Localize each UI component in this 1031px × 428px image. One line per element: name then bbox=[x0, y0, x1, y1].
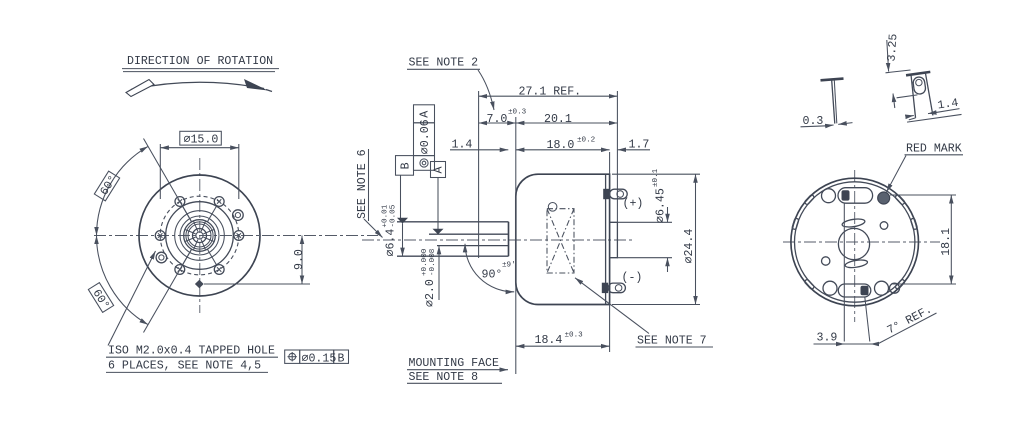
dia 6.45 dim bbox=[617, 221, 672, 223]
dia 24.4 dim bbox=[612, 173, 700, 175]
dia 6.4 dim bbox=[402, 224, 404, 257]
rear hub bbox=[610, 222, 618, 257]
svg-text:±0.2: ±0.2 bbox=[577, 137, 596, 145]
diamond leader bbox=[204, 283, 310, 285]
svg-text:SEE NOTE 8: SEE NOTE 8 bbox=[409, 371, 479, 384]
spokes bbox=[182, 206, 217, 266]
through hole lower-left bbox=[156, 252, 167, 263]
hole bottom-right bbox=[875, 281, 889, 295]
centerline horizontal bbox=[783, 241, 940, 243]
tapped hole 60deg bbox=[214, 197, 224, 207]
label area dashed rect bbox=[547, 209, 574, 273]
18.1 dim bbox=[890, 194, 956, 196]
motor body outline bbox=[516, 174, 610, 304]
shaft tip extension line bbox=[478, 91, 480, 258]
dia 2.0 dim bbox=[438, 246, 440, 300]
svg-text:±0.3: ±0.3 bbox=[508, 109, 527, 117]
datum B leader + triangle bbox=[400, 175, 402, 218]
60 deg label upper bbox=[94, 171, 121, 202]
dia 15.0 dim bbox=[159, 144, 161, 199]
centerline bbox=[362, 239, 633, 241]
60 deg label lower bbox=[87, 283, 114, 314]
svg-text:18.4: 18.4 bbox=[535, 334, 563, 347]
svg-text:6 PLACES, SEE NOTE 4,5: 6 PLACES, SEE NOTE 4,5 bbox=[108, 360, 261, 373]
bearing boss bottom bbox=[397, 255, 509, 257]
svg-text:(-): (-) bbox=[622, 272, 643, 285]
90 deg dim arc bbox=[465, 244, 514, 292]
label pin circle bbox=[548, 203, 557, 212]
shaft knurl star bbox=[185, 221, 213, 249]
tapped hole 180deg bbox=[155, 231, 165, 241]
motor body outer circle bbox=[139, 175, 260, 296]
rotation arrow open head left bbox=[126, 80, 154, 97]
right extension line (hub face) bbox=[616, 91, 618, 222]
bearing boss top bbox=[397, 221, 509, 223]
svg-text:±0.3: ±0.3 bbox=[565, 332, 584, 340]
svg-text:A: A bbox=[419, 111, 432, 118]
svg-text:⌀0.06: ⌀0.06 bbox=[419, 119, 432, 154]
svg-text:SEE NOTE 7: SEE NOTE 7 bbox=[637, 334, 707, 347]
svg-text:⌀6.45: ⌀6.45 bbox=[655, 188, 668, 223]
boss circle bbox=[175, 211, 225, 261]
bearing circle bbox=[184, 220, 216, 252]
27.1 REF dim bbox=[479, 95, 618, 97]
svg-text:B: B bbox=[399, 162, 412, 169]
svg-text:MOUNTING FACE: MOUNTING FACE bbox=[409, 357, 499, 370]
7.0 dim bbox=[479, 122, 516, 124]
svg-text:ISO M2.0x0.4 TAPPED HOLE: ISO M2.0x0.4 TAPPED HOLE bbox=[108, 345, 275, 358]
top slot stadium bbox=[838, 188, 873, 204]
svg-text:B: B bbox=[338, 353, 345, 366]
top slot brush bbox=[842, 190, 850, 200]
radial line 240 bbox=[144, 249, 192, 332]
18.4 dim bbox=[516, 345, 610, 347]
datum A leader + triangle bbox=[437, 178, 439, 230]
svg-text:18.1: 18.1 bbox=[940, 228, 953, 256]
tapped hole 120deg bbox=[175, 197, 185, 207]
centerline horizontal bbox=[94, 235, 378, 237]
svg-text:⌀0.15: ⌀0.15 bbox=[302, 353, 337, 366]
svg-text:9.0: 9.0 bbox=[293, 249, 306, 270]
brush line tilted (7 deg) bbox=[865, 297, 870, 342]
18.0 dim bbox=[516, 149, 610, 151]
hole left small bbox=[822, 257, 830, 265]
60 deg arc lower bbox=[97, 236, 149, 325]
svg-text:⌀15.0: ⌀15.0 bbox=[184, 133, 219, 146]
radial line 120 bbox=[144, 139, 192, 222]
cap outer circle bbox=[791, 178, 919, 306]
ring circle bbox=[180, 216, 219, 255]
end cap seam bbox=[605, 175, 607, 305]
rotation arrow arc bbox=[131, 82, 264, 89]
bottom slot brush bbox=[861, 286, 869, 296]
svg-text:-0.008: -0.008 bbox=[429, 248, 437, 276]
3.25 dim bbox=[886, 70, 911, 73]
shaft top bbox=[429, 233, 509, 235]
svg-text:3.25: 3.25 bbox=[886, 33, 901, 62]
terminal detail side bbox=[801, 79, 853, 128]
shaft bottom bbox=[437, 245, 509, 247]
cap edge extension down bbox=[609, 305, 611, 352]
7 deg leader bbox=[878, 313, 937, 344]
boss end face bbox=[508, 222, 510, 256]
cap inner rim circle bbox=[795, 182, 915, 302]
lower crescent slot bbox=[845, 259, 868, 269]
svg-text:±9': ±9' bbox=[502, 262, 516, 270]
note leader bbox=[108, 251, 156, 346]
tapped hole 0deg bbox=[234, 231, 244, 241]
centerline vertical bbox=[854, 170, 856, 322]
bolt circle dashed bbox=[160, 196, 239, 275]
flange circle bbox=[166, 202, 234, 270]
through hole upper-right bbox=[233, 210, 244, 221]
svg-text:-0.05: -0.05 bbox=[390, 204, 398, 227]
svg-text:3.9: 3.9 bbox=[817, 331, 838, 344]
index diamond bbox=[195, 280, 204, 289]
hole bottom-left bbox=[823, 281, 837, 295]
9.0 dim bbox=[301, 236, 303, 285]
svg-text:A: A bbox=[433, 167, 446, 174]
bearing inner circle bbox=[188, 224, 211, 247]
svg-text:RED MARK: RED MARK bbox=[906, 142, 962, 155]
red mark hole bbox=[878, 192, 890, 204]
datum A box bbox=[431, 162, 446, 178]
mounting face extension line bbox=[515, 117, 517, 374]
svg-text:⌀24.4: ⌀24.4 bbox=[683, 229, 696, 264]
terminal detail front bbox=[894, 68, 962, 123]
rim notches bbox=[792, 194, 918, 290]
svg-text:⌀2.0: ⌀2.0 bbox=[424, 279, 437, 307]
shaft center circle bbox=[196, 232, 203, 239]
svg-text:SEE NOTE 6: SEE NOTE 6 bbox=[356, 149, 369, 219]
60 deg arc upper bbox=[97, 146, 149, 235]
rotation arrow solid head right bbox=[244, 79, 268, 91]
center hole bbox=[838, 228, 869, 259]
upper crescent slot bbox=[842, 218, 866, 229]
svg-text:27.1 REF.: 27.1 REF. bbox=[519, 86, 582, 99]
svg-text:DIRECTION OF ROTATION: DIRECTION OF ROTATION bbox=[127, 55, 273, 68]
hole top-left bbox=[822, 189, 836, 203]
shaft circle bbox=[193, 229, 207, 243]
datum B frame bbox=[396, 105, 435, 175]
svg-text:7.0: 7.0 bbox=[487, 113, 508, 126]
terminal (+) bbox=[603, 189, 627, 199]
svg-text:⌀6.4: ⌀6.4 bbox=[385, 229, 398, 257]
hole bottom-right2 bbox=[890, 283, 900, 293]
brush line vertical bbox=[843, 204, 845, 342]
centerline vertical bbox=[199, 158, 201, 313]
svg-text:+0.01: +0.01 bbox=[382, 204, 390, 227]
see note 6 bbox=[356, 149, 369, 221]
svg-text:±0.1: ±0.1 bbox=[652, 168, 660, 187]
svg-text:(+): (+) bbox=[623, 198, 644, 211]
tapped hole 300deg bbox=[214, 265, 224, 275]
20.1 dim bbox=[516, 122, 618, 124]
cap edge extension up bbox=[609, 152, 611, 174]
bottom slot stadium bbox=[838, 284, 871, 297]
svg-text:+0.000: +0.000 bbox=[421, 248, 429, 276]
hole right small bbox=[880, 222, 888, 230]
terminal (-) bbox=[602, 283, 626, 293]
svg-text:20.1: 20.1 bbox=[544, 113, 572, 126]
svg-text:SEE NOTE 2: SEE NOTE 2 bbox=[409, 57, 479, 70]
svg-text:90°: 90° bbox=[482, 269, 503, 282]
svg-text:18.0: 18.0 bbox=[547, 139, 575, 152]
tapped hole 240deg bbox=[175, 265, 185, 275]
bearing ring2 bbox=[186, 222, 213, 249]
position tolerance frame bbox=[285, 350, 349, 366]
